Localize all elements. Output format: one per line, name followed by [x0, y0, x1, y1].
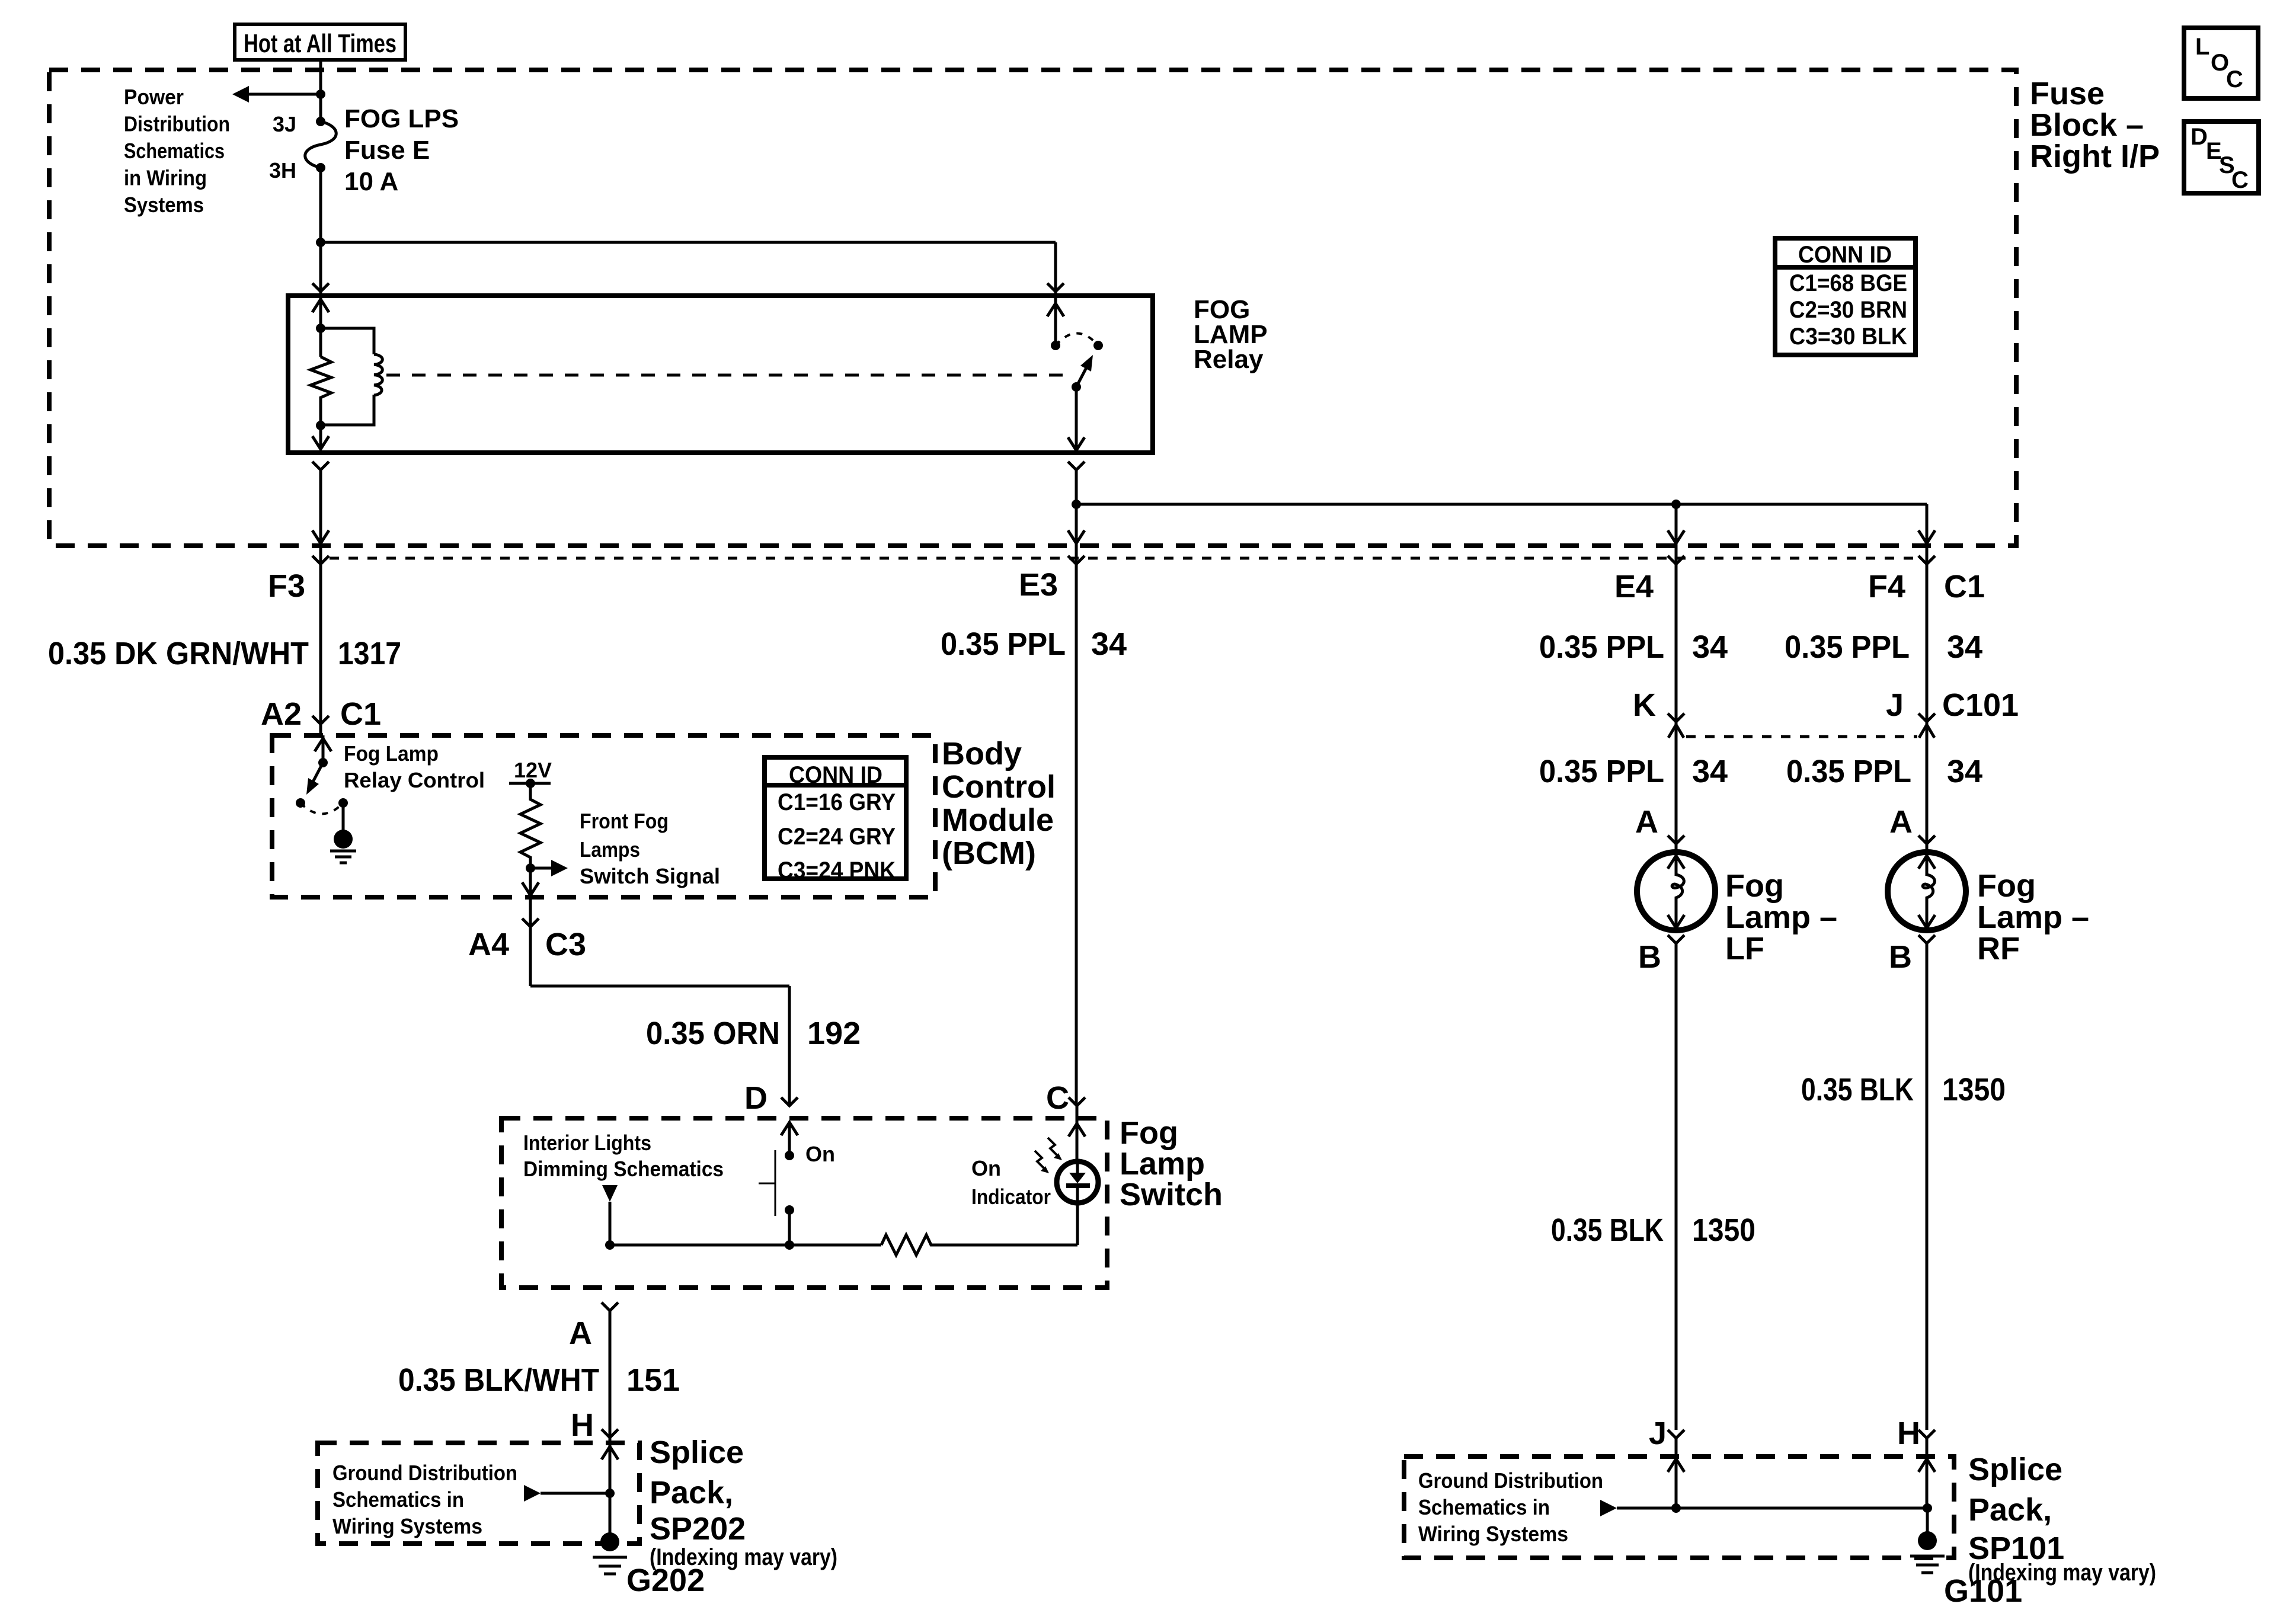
svg-text:Relay: Relay [1194, 345, 1264, 374]
svg-text:Splice: Splice [1968, 1452, 2062, 1487]
svg-text:A: A [1635, 804, 1658, 840]
svg-text:0.35 PPL: 0.35 PPL [1539, 754, 1664, 789]
svg-text:C: C [1046, 1080, 1069, 1116]
svg-text:Fog: Fog [1977, 868, 2036, 904]
svg-text:0.35 BLK/WHT: 0.35 BLK/WHT [398, 1362, 599, 1398]
svg-text:Relay Control: Relay Control [344, 768, 485, 792]
svg-text:C1=68 BGE: C1=68 BGE [1789, 270, 1907, 296]
svg-text:12V: 12V [514, 758, 552, 782]
svg-text:C: C [2226, 66, 2243, 92]
svg-text:Ground Distribution: Ground Distribution [332, 1461, 517, 1485]
svg-text:A: A [569, 1315, 592, 1351]
svg-text:3J: 3J [273, 112, 296, 136]
svg-text:Schematics in: Schematics in [1418, 1495, 1550, 1519]
svg-text:34: 34 [1947, 629, 1982, 665]
svg-text:192: 192 [807, 1016, 861, 1051]
svg-text:Switch: Switch [1120, 1177, 1223, 1212]
svg-text:C3=30 BLK: C3=30 BLK [1789, 324, 1907, 350]
svg-text:Systems: Systems [124, 193, 204, 217]
svg-text:Wiring Systems: Wiring Systems [332, 1514, 482, 1538]
svg-text:1350: 1350 [1942, 1072, 2006, 1108]
svg-text:On: On [971, 1156, 1001, 1180]
svg-text:34: 34 [1692, 629, 1728, 665]
svg-text:Fog Lamp: Fog Lamp [344, 741, 439, 766]
svg-text:1317: 1317 [338, 636, 401, 671]
svg-text:C: C [2231, 167, 2249, 193]
svg-text:Switch Signal: Switch Signal [580, 864, 720, 888]
svg-text:On: On [805, 1142, 835, 1166]
svg-text:Dimming Schematics: Dimming Schematics [523, 1157, 724, 1181]
svg-text:Lamps: Lamps [580, 837, 640, 862]
svg-text:34: 34 [1091, 626, 1127, 662]
svg-text:LF: LF [1725, 931, 1764, 966]
svg-text:0.35 BLK: 0.35 BLK [1801, 1072, 1914, 1108]
svg-text:Lamp –: Lamp – [1977, 900, 2089, 935]
svg-text:Distribution: Distribution [124, 112, 230, 136]
svg-text:Fuse E: Fuse E [344, 136, 430, 165]
svg-text:B: B [1638, 939, 1661, 975]
svg-text:CONN ID: CONN ID [1798, 242, 1892, 268]
svg-text:0.35 BLK: 0.35 BLK [1551, 1212, 1664, 1248]
svg-text:B: B [1889, 939, 1912, 975]
svg-text:10 A: 10 A [344, 167, 398, 196]
svg-text:Splice: Splice [650, 1435, 744, 1470]
svg-text:Fuse: Fuse [2030, 76, 2105, 111]
svg-text:Block –: Block – [2030, 107, 2144, 143]
svg-text:C2=24 GRY: C2=24 GRY [778, 824, 896, 850]
svg-text:A4: A4 [468, 927, 509, 962]
svg-text:Control: Control [942, 769, 1056, 805]
svg-text:C2=30 BRN: C2=30 BRN [1789, 297, 1907, 323]
svg-text:SP202: SP202 [650, 1511, 746, 1547]
svg-text:L: L [2195, 34, 2209, 60]
svg-text:0.35 PPL: 0.35 PPL [941, 626, 1066, 662]
svg-text:151: 151 [626, 1362, 680, 1398]
svg-text:RF: RF [1977, 931, 2020, 966]
svg-text:A2: A2 [261, 696, 302, 732]
svg-text:E4: E4 [1614, 569, 1654, 604]
svg-text:Ground Distribution: Ground Distribution [1418, 1468, 1603, 1493]
svg-text:Front Fog: Front Fog [580, 809, 669, 833]
svg-text:G101: G101 [1944, 1573, 2022, 1609]
svg-text:F4: F4 [1868, 569, 1905, 604]
svg-text:Power: Power [124, 85, 184, 109]
svg-text:K: K [1633, 687, 1656, 723]
svg-text:D: D [744, 1080, 768, 1116]
svg-text:D: D [2191, 124, 2208, 150]
svg-text:1350: 1350 [1692, 1212, 1755, 1248]
svg-text:(BCM): (BCM) [942, 836, 1036, 871]
svg-text:34: 34 [1692, 754, 1728, 789]
svg-text:Pack,: Pack, [1968, 1492, 2052, 1528]
svg-text:Pack,: Pack, [650, 1475, 733, 1510]
svg-text:Interior Lights: Interior Lights [523, 1131, 651, 1155]
svg-text:Indicator: Indicator [971, 1185, 1051, 1209]
svg-text:H: H [1897, 1416, 1920, 1451]
svg-text:Schematics: Schematics [124, 139, 225, 163]
svg-text:CONN ID: CONN ID [789, 762, 882, 788]
svg-text:G202: G202 [626, 1563, 705, 1598]
svg-text:Schematics in: Schematics in [332, 1487, 464, 1512]
svg-text:34: 34 [1947, 754, 1982, 789]
svg-text:C1=16 GRY: C1=16 GRY [778, 789, 896, 815]
svg-text:H: H [571, 1407, 594, 1443]
svg-text:C3=24 PNK: C3=24 PNK [778, 857, 896, 884]
svg-text:C101: C101 [1942, 687, 2019, 723]
svg-text:0.35 ORN: 0.35 ORN [646, 1016, 780, 1051]
svg-text:C1: C1 [340, 696, 381, 732]
svg-text:0.35 PPL: 0.35 PPL [1539, 629, 1664, 665]
svg-text:Wiring Systems: Wiring Systems [1418, 1522, 1568, 1546]
svg-text:in Wiring: in Wiring [124, 166, 207, 190]
svg-text:0.35 PPL: 0.35 PPL [1786, 754, 1911, 789]
svg-text:A: A [1889, 804, 1913, 840]
svg-text:Lamp –: Lamp – [1725, 900, 1837, 935]
svg-text:Body: Body [942, 736, 1022, 772]
svg-text:C3: C3 [545, 927, 586, 962]
svg-text:FOG LPS: FOG LPS [344, 104, 459, 133]
svg-text:J: J [1649, 1416, 1667, 1451]
svg-text:Hot at All Times: Hot at All Times [244, 29, 396, 58]
svg-text:Right I/P: Right I/P [2030, 139, 2160, 174]
svg-text:Lamp: Lamp [1120, 1146, 1205, 1182]
svg-text:J: J [1886, 687, 1904, 723]
svg-text:3H: 3H [269, 158, 296, 183]
svg-text:F3: F3 [268, 568, 305, 604]
svg-text:0.35 DK GRN/WHT: 0.35 DK GRN/WHT [48, 636, 309, 671]
svg-text:Fog: Fog [1120, 1115, 1178, 1151]
svg-text:Fog: Fog [1725, 868, 1784, 904]
svg-text:0.35 PPL: 0.35 PPL [1785, 629, 1910, 665]
svg-text:C1: C1 [1944, 569, 1985, 604]
svg-text:Module: Module [942, 802, 1054, 838]
svg-text:E3: E3 [1019, 567, 1058, 603]
